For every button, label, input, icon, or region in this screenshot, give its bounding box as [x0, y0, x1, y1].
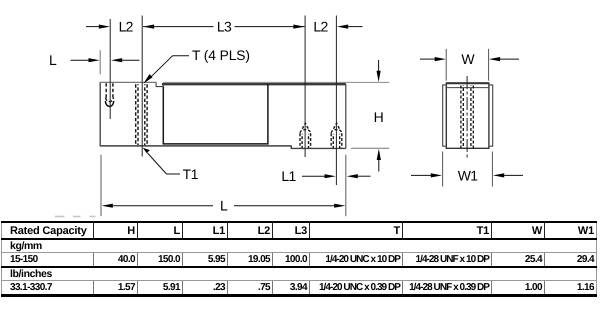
dim L1 left arrow: [302, 175, 325, 177]
notch in top edge: [156, 82, 163, 86]
dim L2 right: arrow: [337, 25, 348, 29]
svg-text:L: L: [49, 52, 57, 68]
hole 1 solid countersink cup: [105, 101, 114, 107]
left edge extension line (lower): [100, 155, 102, 217]
svg-text:W: W: [461, 51, 475, 67]
end view main body rect: [446, 83, 489, 148]
svg-text:W1: W1: [458, 167, 479, 183]
hole 4 (bottom tapped) dashed threads: [331, 123, 342, 148]
end view centerline: [466, 76, 468, 159]
leader T1: [167, 173, 181, 175]
svg-text:T (4 PLS): T (4 PLS): [192, 48, 250, 63]
svg-text:L: L: [220, 198, 228, 214]
threaded hole T1 dashed threads: [136, 84, 147, 145]
left edge extension line (upper): [99, 50, 101, 74]
dim W1: right arrow: [493, 173, 504, 177]
part body top edge thin (left pad + H extension line): [100, 81, 157, 83]
svg-text:L3: L3: [217, 19, 232, 35]
svg-text:H: H: [374, 109, 383, 125]
dim L (edge to hole1): left arrow: [71, 59, 90, 61]
end view right tab: [489, 85, 493, 146]
dim W: right arrow: [489, 57, 500, 61]
part body bottom edge main: [100, 145, 292, 147]
spec table: [1, 221, 597, 297]
dim L3: right arrow: [235, 26, 305, 28]
svg-text:L2: L2: [313, 19, 328, 35]
dim H top arrow: [378, 60, 380, 72]
svg-text:L2: L2: [119, 19, 134, 35]
dim H bottom extension line: [351, 147, 389, 149]
dim W1: left arrow: [411, 174, 431, 176]
dim L3: left arrow: [143, 25, 154, 29]
dim W: left arrow: [420, 58, 435, 60]
leader T (4 PLS): [173, 55, 190, 57]
dim L overall: left arrow: [102, 204, 113, 208]
part body right edge: [345, 84, 347, 148]
dim H bottom arrow: [377, 149, 381, 160]
hole 1 (top drilled hole) dashed bore: [106, 83, 114, 102]
dim L overall: right arrow: [234, 205, 335, 207]
end view thread dashed lines: [461, 86, 473, 149]
end view top cap line: [446, 87, 489, 89]
hole 4 centerline / L1 extension: [335, 16, 337, 186]
hole 3 (bottom tapped) dashed threads: [300, 123, 311, 148]
end view left tab: [443, 85, 447, 146]
right edge extension line (lower): [345, 155, 347, 217]
dim W extension lines: [445, 49, 447, 81]
dim W1 extension lines: [442, 152, 444, 187]
dim L (edge to hole1): right arrow: [111, 58, 122, 62]
dim L1 right arrow: [347, 174, 358, 178]
svg-text:T1: T1: [183, 167, 199, 182]
pocket rectangle: [163, 84, 268, 144]
hole 1 centerline: [109, 19, 111, 119]
dim L2 left: arrow: [86, 26, 100, 28]
svg-text:L1: L1: [281, 168, 296, 184]
T1 hole centerline: [141, 16, 143, 157]
part bottom step: [291, 146, 346, 149]
hole 3 centerline: [304, 16, 306, 158]
part body top edge right section thick: [162, 83, 346, 85]
part body left edge: [99, 82, 101, 145]
faint cropped text remnants above table: [55, 216, 96, 218]
